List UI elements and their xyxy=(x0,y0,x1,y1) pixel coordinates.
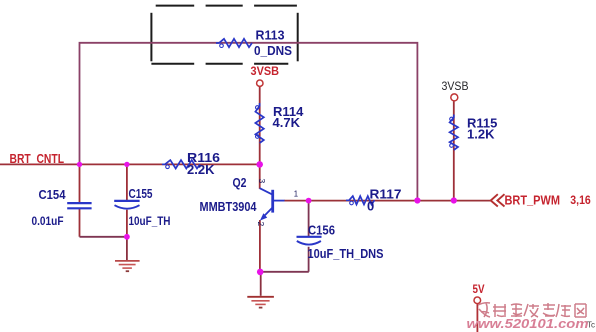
wire left bottom rail xyxy=(80,236,127,238)
wire BRT_CNTL rail xyxy=(0,163,260,165)
svg-text:10uF_TH: 10uF_TH xyxy=(129,214,171,228)
wire bottom rail xyxy=(260,271,309,273)
svg-text:3VSB: 3VSB xyxy=(251,66,280,78)
svg-text:C156: C156 xyxy=(308,223,335,237)
wire 5V stem xyxy=(476,304,478,332)
svg-text:0: 0 xyxy=(367,199,374,214)
svg-text:1: 1 xyxy=(294,190,298,199)
power 3VSB (right) xyxy=(442,81,469,101)
svg-text:2: 2 xyxy=(256,222,266,227)
svg-text:1.2K: 1.2K xyxy=(467,127,495,142)
resistor R116 xyxy=(162,150,220,177)
svg-text:Q2: Q2 xyxy=(233,176,247,190)
wire collector stub xyxy=(259,164,261,188)
svg-text:BRT_PWM: BRT_PWM xyxy=(505,193,561,207)
transistor Q2 xyxy=(200,176,299,227)
node dots xyxy=(77,161,457,275)
svg-text:0_DNS: 0_DNS xyxy=(254,43,292,58)
power 5V xyxy=(473,282,485,303)
dashed DNS box xyxy=(151,6,297,64)
svg-text:R113: R113 xyxy=(256,28,285,43)
resistor R113 xyxy=(216,28,292,58)
svg-text:4.7K: 4.7K xyxy=(273,115,301,130)
wire 3VSB right stem through R115 xyxy=(453,101,455,200)
ground (under Q2) xyxy=(247,297,274,308)
svg-text:10uF_TH_DNS: 10uF_TH_DNS xyxy=(308,247,384,261)
wire left ground stem xyxy=(126,237,128,260)
svg-text:3VSB: 3VSB xyxy=(442,81,469,93)
svg-text:MMBT3904: MMBT3904 xyxy=(200,199,258,214)
svg-text:C154: C154 xyxy=(39,188,66,202)
wire ground stem under Q2 xyxy=(260,272,262,296)
resistor R115 xyxy=(450,115,498,151)
svg-text:R117: R117 xyxy=(370,186,402,201)
port BRT_PWM chevrons xyxy=(491,194,505,206)
svg-text:BRT_CNTL: BRT_CNTL xyxy=(10,152,65,166)
capacitor C156 xyxy=(297,223,384,261)
wire C154 branch xyxy=(79,164,81,236)
capacitor C155 xyxy=(114,187,170,228)
capacitor C154 xyxy=(32,188,92,228)
resistor R117 xyxy=(346,186,402,213)
svg-text:5V: 5V xyxy=(473,282,485,296)
wire C155 branch xyxy=(126,164,128,236)
wire top loop through R113 xyxy=(80,43,418,201)
svg-text:www.520101.com: www.520101.com xyxy=(467,316,590,331)
power 3VSB (center) xyxy=(251,66,280,87)
wire emitter stub xyxy=(259,220,261,272)
watermark chinese characters xyxy=(478,303,586,317)
svg-text:C155: C155 xyxy=(129,187,153,201)
resistor R114 xyxy=(255,103,304,143)
svg-text:3: 3 xyxy=(257,179,267,184)
wire 3VSB stem through R114 xyxy=(259,87,261,165)
svg-text:0.01uF: 0.01uF xyxy=(32,214,64,228)
svg-text:Tc: Tc xyxy=(587,321,595,330)
wire base rail to BRT_PWM xyxy=(284,200,491,202)
ground (left) xyxy=(115,261,140,271)
svg-text:2.2K: 2.2K xyxy=(187,162,215,177)
wire C156 branch xyxy=(308,201,310,272)
svg-text:3,16: 3,16 xyxy=(570,193,591,207)
